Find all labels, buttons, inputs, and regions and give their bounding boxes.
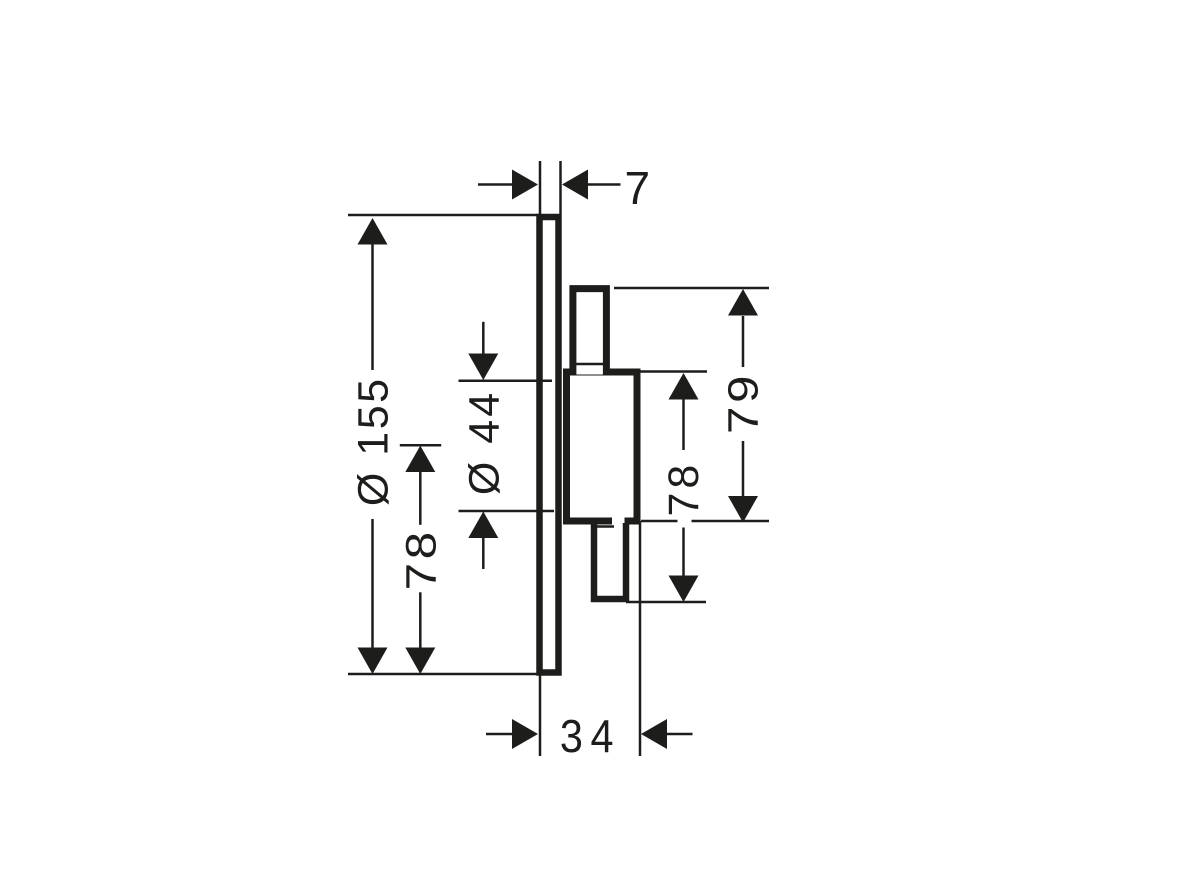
- svg-text:7: 7: [624, 162, 651, 214]
- svg-text:Ø 155: Ø 155: [350, 376, 398, 506]
- svg-text:34: 34: [560, 711, 621, 763]
- svg-text:79: 79: [719, 372, 767, 434]
- svg-text:78: 78: [396, 528, 444, 590]
- svg-text:78: 78: [660, 461, 708, 517]
- svg-text:Ø 44: Ø 44: [460, 390, 508, 495]
